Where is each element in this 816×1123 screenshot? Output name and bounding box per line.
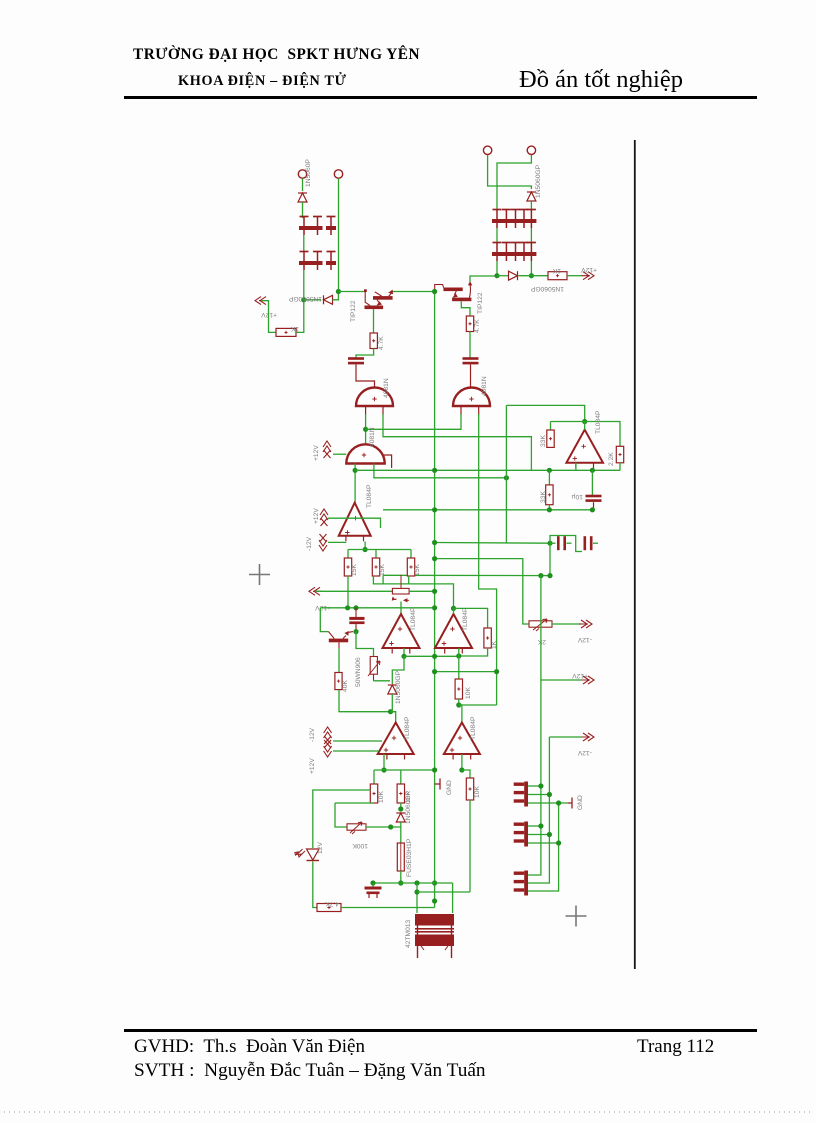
- plus U2D a: [450, 627, 454, 631]
- wire CB3 to CB4 b: [530, 228, 532, 244]
- svg-text:1K: 1K: [491, 640, 498, 649]
- svg-text:10K: 10K: [378, 791, 385, 803]
- wire R15 to D7: [400, 803, 402, 811]
- junction N14: [363, 547, 368, 552]
- junction N31: [494, 669, 499, 674]
- svg-text:4081N: 4081N: [369, 427, 376, 447]
- resistor R14 10K: [370, 784, 377, 803]
- wire R16 down to y892: [469, 800, 471, 892]
- junction N23: [432, 589, 437, 594]
- junction N19: [590, 507, 595, 512]
- capacitor C1: [348, 357, 364, 364]
- svg-text:+12V: +12V: [313, 445, 320, 461]
- junction N37: [459, 767, 464, 772]
- wire left rail to LED: [313, 790, 371, 848]
- plus U2A a: [353, 516, 357, 520]
- lead C2 to gate G2: [470, 365, 472, 389]
- transformer T1 42TM013: [415, 914, 454, 958]
- plus U2D b: [442, 641, 446, 645]
- junction N24: [345, 605, 350, 610]
- wire U2B in to bus470: [575, 463, 577, 471]
- lead U1C right pin: [384, 455, 392, 468]
- junction N40: [398, 806, 403, 811]
- trimmer RT2 2K: [529, 619, 552, 631]
- wire R8 to bus607: [347, 576, 349, 608]
- junction N29: [432, 654, 437, 659]
- junction N35: [381, 767, 386, 772]
- junction N1: [301, 297, 306, 302]
- wire X2-2 to CB3: [497, 155, 531, 210]
- svg-text:1N5060GP: 1N5060GP: [288, 295, 322, 302]
- wire D3 to CB3: [530, 201, 532, 210]
- wire C4 to C5: [567, 542, 572, 544]
- svg-text:TL084P: TL084P: [462, 607, 469, 631]
- transistor Q1 TIP122: [364, 289, 393, 309]
- capacitor bank CB2: [299, 252, 336, 271]
- wire N43 to transformer: [416, 883, 418, 913]
- junction N48: [538, 823, 543, 828]
- wire bus549 to R10: [410, 550, 412, 559]
- svg-text:+12V: +12V: [581, 266, 597, 273]
- plus U2F b: [450, 748, 454, 752]
- svg-text:TL084P: TL084P: [366, 484, 373, 508]
- junction N6: [363, 427, 368, 432]
- junction N20: [547, 541, 552, 546]
- capacitor C6: [349, 608, 364, 630]
- wire C5 right lead: [593, 542, 598, 544]
- wire +12V rail U2E: [333, 740, 382, 742]
- wire J2 pin1: [528, 825, 541, 827]
- wire bus y549: [348, 549, 411, 551]
- wire CB3 to CB4 a: [496, 228, 498, 244]
- connector pin circle X1-2: [334, 170, 342, 178]
- capacitor C4: [557, 536, 566, 550]
- arrow +12V right mid: [581, 676, 594, 684]
- resistor R17 4.7K: [317, 904, 341, 912]
- svg-text:TIP122: TIP122: [477, 292, 484, 314]
- wire LED to R17: [313, 862, 317, 908]
- arrow -12V U2A: [319, 534, 327, 551]
- wire arrow to R1: [261, 301, 276, 333]
- resistor R12 1K: [484, 628, 491, 648]
- plus U1B: [469, 397, 473, 401]
- wire N32 to apex: [453, 608, 455, 614]
- wire N34 to U2F apex: [459, 705, 462, 723]
- resistor R3 4.7K: [466, 316, 473, 332]
- svg-text:+12V: +12V: [572, 672, 588, 679]
- svg-text:GND: GND: [577, 795, 584, 810]
- wire to RT4: [335, 803, 347, 827]
- connector pin circle X1-1: [298, 170, 306, 178]
- wire Q3 node to RT3: [356, 632, 374, 657]
- wire G1 left leg to G3: [365, 414, 367, 445]
- svg-text:4081N: 4081N: [481, 376, 488, 396]
- wire X2-1 to D3: [488, 155, 532, 189]
- op-amp U2F TL084P: [444, 723, 480, 760]
- svg-text:+12V: +12V: [313, 508, 320, 524]
- junction N28: [401, 654, 406, 659]
- junction N26: [432, 605, 437, 610]
- plus U2E a: [392, 736, 396, 740]
- wire +12V rail U2A: [328, 518, 381, 528]
- transistor Q3 A564: [329, 631, 354, 642]
- svg-text:1K: 1K: [552, 267, 561, 274]
- wire bus y770: [374, 769, 435, 771]
- op-amp U2A TL084P: [339, 503, 371, 542]
- lead C1 to gate G1: [356, 365, 375, 389]
- junction N4: [494, 273, 499, 278]
- arrow +12V left: [255, 297, 268, 305]
- wire +12V branch: [541, 679, 581, 681]
- wire J1 pin1: [528, 785, 541, 787]
- svg-text:33K: 33K: [540, 491, 547, 503]
- junction N16: [547, 468, 552, 473]
- wire R1 to node N1: [296, 300, 304, 333]
- junction N25: [353, 605, 358, 610]
- junction N39: [388, 824, 393, 829]
- svg-text:TL084P: TL084P: [470, 716, 477, 740]
- wire RT1 to central: [409, 590, 435, 592]
- svg-text:-12V: -12V: [577, 749, 592, 756]
- wire N16 to R6: [548, 470, 550, 485]
- arrow -12V right: [579, 620, 592, 628]
- wire RT2 to -12V arrow: [552, 623, 581, 625]
- junction N9: [432, 468, 437, 473]
- capacitor C3 10u: [586, 495, 602, 502]
- plus U2A b: [345, 530, 349, 534]
- svg-text:1N5060GP: 1N5060GP: [530, 285, 564, 292]
- lead C3 bottom: [593, 502, 595, 510]
- wire N17 to C3: [591, 470, 593, 495]
- wire -12V branch: [549, 736, 581, 738]
- junction N2: [336, 289, 341, 294]
- resistor R15 10K: [397, 784, 404, 803]
- diode D1 1N5060P: [298, 193, 307, 202]
- op-amp U2E TL084P: [378, 723, 414, 760]
- plus U2E b: [384, 748, 388, 752]
- wire N2 to Q1 base: [338, 291, 365, 293]
- AND gate U1C 4081N: [346, 444, 384, 463]
- wire D2 to node N2: [333, 291, 339, 300]
- wire to R5 top: [550, 422, 552, 431]
- lead Q3 emitter: [338, 642, 340, 648]
- wire CB4 to node N5: [530, 261, 532, 276]
- connector header J1: [514, 782, 528, 807]
- junction N21: [538, 573, 543, 578]
- LED D6: [295, 849, 319, 861]
- wire central vertical bus: [434, 292, 436, 908]
- svg-text:40K: 40K: [342, 680, 349, 692]
- resistor R2 4.7K: [370, 333, 377, 349]
- svg-text:1N5060GP: 1N5060GP: [395, 670, 402, 704]
- wire R4 to +12V arrow: [567, 275, 581, 277]
- wire U2E out down: [383, 754, 385, 770]
- plus U2C a: [398, 627, 402, 631]
- wire N15 to R5 R7: [551, 422, 621, 447]
- resistor R10 15K: [407, 558, 414, 576]
- junction N8: [504, 475, 509, 480]
- wire arrow to RT1: [315, 590, 392, 592]
- plus U1A: [372, 397, 376, 401]
- wire bus y607: [320, 607, 434, 609]
- lead RT3 bottom: [373, 674, 375, 681]
- wire N34 to x496: [459, 704, 497, 706]
- wire RT3 bottom to D5: [374, 680, 391, 682]
- schematic frame right border: [634, 140, 636, 969]
- wire Q3 to R11: [338, 648, 340, 672]
- ground GND mid: [435, 779, 440, 790]
- arrow +12V U2E: [324, 727, 332, 744]
- junction N38b: [432, 880, 437, 885]
- wire R3 to C2: [469, 332, 471, 359]
- svg-text:1N5060GP: 1N5060GP: [535, 164, 542, 198]
- wire D7 to fuse: [400, 822, 402, 843]
- wire U2F out down: [461, 754, 463, 770]
- junction N10: [432, 507, 437, 512]
- op-amp U2C TL084P: [383, 614, 420, 654]
- gate G2 legs: [461, 406, 479, 415]
- wire N6 to G2 left leg: [366, 414, 461, 429]
- svg-text:10µ: 10µ: [572, 493, 583, 500]
- resistor R1 1K: [276, 328, 296, 336]
- junction N49: [547, 832, 552, 837]
- arrow -12V U2E: [324, 740, 332, 757]
- wire J1 pin3 to GND: [528, 802, 568, 804]
- resistor R11 40K: [335, 673, 342, 690]
- capacitor bank CB1: [299, 217, 336, 236]
- svg-text:15K: 15K: [414, 564, 421, 576]
- plus U2B b: [573, 456, 577, 460]
- diode D3 1N5060GP: [527, 192, 536, 201]
- wire bus y470: [355, 469, 620, 471]
- connector pin circle X2-2: [527, 146, 535, 154]
- plus U1C: [362, 453, 366, 457]
- svg-text:FUSE03H1P: FUSE03H1P: [406, 838, 413, 877]
- svg-text:-12V: -12V: [306, 536, 313, 551]
- wire bus607 to Q3 base: [320, 608, 328, 632]
- wire bus549 to R9: [375, 550, 377, 559]
- wire N37 to R16: [462, 770, 470, 778]
- svg-text:-12V: -12V: [309, 727, 316, 742]
- junction N27: [388, 709, 393, 714]
- junction N47: [556, 800, 561, 805]
- svg-text:4.7K: 4.7K: [325, 900, 339, 907]
- wire pin X1-2 down to node N2: [338, 179, 340, 292]
- resistor R5 33K: [547, 430, 554, 447]
- svg-text:4.7K: 4.7K: [378, 336, 385, 350]
- wire rail x549: [528, 737, 549, 883]
- junction N22: [547, 573, 552, 578]
- trimmer RT4 100K: [347, 822, 366, 834]
- svg-text:12V: 12V: [317, 842, 324, 854]
- wire feedback loop top: [506, 405, 584, 421]
- arrow -12V right low: [581, 733, 594, 741]
- wire G1 right leg long run: [383, 414, 531, 470]
- trimmer RT1: [392, 575, 409, 602]
- svg-text:2K: 2K: [537, 638, 546, 645]
- svg-text:GND: GND: [446, 780, 453, 795]
- wire G2 right leg long run: [479, 414, 497, 705]
- junction N46: [547, 792, 552, 797]
- svg-text:1K: 1K: [290, 325, 299, 332]
- wire to R15: [400, 770, 402, 784]
- arrow +12V mid left: [309, 587, 322, 595]
- junction N30: [432, 669, 437, 674]
- wire rail x540: [528, 576, 541, 875]
- AND gate U1B 4081N: [453, 388, 490, 407]
- wire J2 pin2: [528, 834, 549, 836]
- wire R9 to bus583 to U2D apex node: [373, 576, 453, 608]
- diode D5 1N5060GP: [388, 685, 397, 694]
- resistor R16 10K: [466, 778, 473, 800]
- junction N15: [582, 419, 587, 424]
- svg-text:10K: 10K: [465, 687, 472, 699]
- wire bus y558 to RT2: [435, 559, 529, 624]
- wire fuse to row883: [400, 871, 402, 883]
- transistor Q2 TIP122: [435, 281, 473, 301]
- plus U2B a: [581, 444, 585, 448]
- wire Q1 emitter to node N3: [392, 291, 434, 293]
- connector header J2: [514, 822, 528, 847]
- wire R14 bottom tee: [335, 802, 374, 804]
- wire over-loop caps: [550, 536, 582, 552]
- wire U1C left leg to U2A apex: [354, 464, 356, 504]
- svg-text:-12V: -12V: [577, 636, 592, 643]
- wire N4 to D4: [497, 275, 508, 277]
- wire U1C right leg to feedback: [374, 464, 507, 478]
- wire CB2 to node N1: [303, 270, 305, 300]
- arrow +12V gate U1C: [323, 441, 331, 458]
- diode D7 1N5060GP: [396, 813, 405, 822]
- plus U2C b: [389, 641, 393, 645]
- wire N15 to U2B apex: [584, 422, 586, 430]
- capacitor C7: [365, 887, 382, 899]
- svg-text:50WN906: 50WN906: [355, 657, 362, 687]
- wire N42 to C7: [372, 883, 374, 887]
- wire N32 to R12: [454, 608, 488, 628]
- diode D4 1N5060GP: [509, 271, 518, 280]
- wire D4 to R4: [519, 275, 549, 277]
- connector header J3: [514, 871, 528, 896]
- wire rail x558: [528, 803, 559, 891]
- wire U2C out lead: [403, 648, 405, 656]
- wire RT4 to diode line: [366, 826, 401, 828]
- svg-text:1N5060GP: 1N5060GP: [405, 790, 412, 824]
- wire CB1 to CB2: [303, 235, 305, 252]
- diode D2 1N5060GP: [324, 295, 333, 304]
- wire -12V rail U2E: [333, 750, 379, 752]
- wire bus583 to bus575 link: [382, 575, 384, 584]
- ground GND right: [568, 798, 572, 809]
- resistor R4 1K: [548, 272, 567, 280]
- wire J2 pin3: [528, 842, 559, 844]
- junction N41: [398, 880, 403, 885]
- junction N12: [432, 556, 437, 561]
- arrow +12V U2A: [320, 509, 328, 526]
- junction N25b: [353, 629, 358, 634]
- registration cross left: [249, 564, 270, 585]
- wire U2C out to D5: [392, 656, 404, 684]
- op-amp U2B TL084P: [566, 430, 603, 469]
- junction N36: [432, 767, 437, 772]
- wire to U2C apex: [400, 602, 402, 615]
- junction N18: [547, 507, 552, 512]
- junction N45: [538, 783, 543, 788]
- trimmer RT3 50WN906: [368, 657, 380, 677]
- fuse F1 FUSE03H1P: [397, 843, 404, 871]
- svg-text:33K: 33K: [540, 435, 547, 447]
- wire R6 to bus510: [548, 505, 550, 510]
- wire D5 to N27: [391, 694, 393, 712]
- junction N38: [432, 898, 437, 903]
- wire D1 to C-bank CB1: [302, 202, 304, 218]
- op-amp U2D TL084P: [435, 614, 472, 654]
- svg-text:15K: 15K: [379, 564, 386, 576]
- junction N3: [432, 289, 437, 294]
- registration cross bottom right: [566, 906, 587, 927]
- wire bus y575: [383, 574, 550, 576]
- svg-text:TL084P: TL084P: [410, 607, 417, 631]
- wire to R14: [373, 770, 375, 784]
- wire Q1 emitter to R2: [373, 309, 375, 333]
- wire pin X1-1 to D1: [302, 179, 304, 192]
- svg-text:2.2K: 2.2K: [608, 452, 615, 466]
- svg-text:4.7K: 4.7K: [474, 319, 481, 333]
- capacitor C2: [463, 357, 479, 364]
- capacitor bank CB4: [492, 243, 536, 262]
- wire bus y542: [435, 542, 550, 545]
- resistor R9 15K: [372, 558, 379, 576]
- resistor R13 10K: [455, 679, 462, 699]
- wire U2A out to bus549: [364, 542, 366, 550]
- wire N20 to C4: [550, 542, 556, 544]
- wire R12 to N33: [459, 648, 488, 656]
- wire J1 pin2: [528, 794, 549, 796]
- junction N7: [353, 468, 358, 473]
- junction N11: [432, 540, 437, 545]
- capacitor C5: [584, 536, 593, 550]
- resistor R6 33K: [546, 485, 553, 505]
- junction N32: [451, 606, 456, 611]
- junction N43: [414, 880, 419, 885]
- svg-text:42TM013: 42TM013: [405, 919, 412, 948]
- svg-text:10K: 10K: [474, 786, 481, 798]
- wire Q2 emitter to R3: [461, 301, 470, 316]
- junction N5: [529, 273, 534, 278]
- connector pin circle X2-1: [483, 146, 491, 154]
- AND gate U1A 4081N: [356, 388, 393, 407]
- resistor R7 2.2K: [616, 446, 623, 463]
- wire N20 down to bus575: [549, 543, 551, 575]
- wire bus y656: [404, 655, 459, 657]
- svg-text:1N5060P: 1N5060P: [305, 159, 312, 187]
- svg-text:100K: 100K: [352, 842, 368, 849]
- wire U2D out to R13: [458, 648, 460, 679]
- wire R10 to bus583: [408, 576, 410, 584]
- gate G1 legs: [366, 406, 383, 415]
- capacitor bank CB3: [492, 210, 536, 229]
- wire N27 to U2E apex: [391, 712, 396, 723]
- wire R7 to bus470: [619, 463, 621, 471]
- svg-text:TIP122: TIP122: [350, 300, 357, 322]
- arrow +12V right top: [581, 272, 594, 280]
- svg-text:+12V: +12V: [309, 758, 316, 774]
- wire Q2 collector to node N4: [470, 276, 497, 282]
- resistor R8 15K: [344, 558, 351, 576]
- svg-text:15K: 15K: [351, 564, 358, 576]
- junction N34: [456, 702, 461, 707]
- svg-text:TL084P: TL084P: [404, 716, 411, 740]
